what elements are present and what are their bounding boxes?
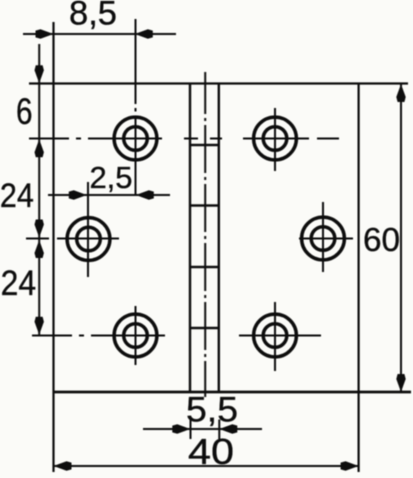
centerline row3 segment b through hole	[91, 335, 165, 337]
hole mid-right inner	[311, 227, 335, 251]
dim line 2,5	[48, 194, 170, 196]
arrow 2,5 left	[69, 190, 87, 199]
hole top-left outer	[114, 117, 157, 160]
centerline col1 segment a	[135, 19, 137, 104]
arrow 2,5 right	[136, 190, 154, 199]
knuckle joint 3	[190, 266, 219, 268]
arrow up at row1	[35, 139, 44, 157]
knuckle joint 2	[190, 204, 219, 206]
dim line 8,5	[23, 33, 176, 35]
arrow 24 down at row2	[35, 220, 44, 238]
dim line 40	[54, 465, 359, 467]
hole top-right inner	[263, 127, 287, 151]
centerline row3 dot	[79, 335, 84, 337]
centerline col1 bottom hole	[135, 306, 137, 365]
extension tick 5,5 right	[218, 420, 220, 440]
hinge leaf bottom edge with extension	[54, 391, 412, 394]
svg-text:24: 24	[1, 264, 37, 303]
centerline row1 dot	[76, 138, 81, 140]
centerline row1 segment c through right hole	[243, 138, 309, 140]
svg-text:6: 6	[16, 91, 33, 132]
svg-text:24: 24	[0, 177, 34, 215]
svg-text:5,5: 5,5	[186, 391, 238, 430]
centerline row1 end dash	[317, 138, 339, 140]
arrow 40 right	[341, 461, 359, 470]
arrow 8,5 right	[135, 29, 153, 38]
hole bottom-right inner	[263, 324, 287, 348]
hole top-right outer	[254, 117, 297, 160]
centerline row1 dash on knuckle left	[184, 138, 198, 140]
svg-text:40: 40	[188, 431, 234, 472]
svg-text:60: 60	[363, 222, 400, 259]
hinge leaf left edge + extension lines	[52, 22, 54, 472]
extension tick 5,5 left	[190, 420, 192, 440]
centerline row2 right segment through hole	[299, 238, 353, 240]
hole top-left inner	[124, 127, 148, 151]
dim line left vertical	[38, 44, 40, 336]
arrow 40 left	[54, 461, 72, 470]
centerline row1 segment b through hole	[88, 138, 162, 140]
knuckle left line	[189, 84, 191, 393]
arrow 60 top (up)	[396, 84, 405, 102]
knuckle joint 4	[190, 327, 219, 329]
svg-text:8,5: 8,5	[69, 0, 117, 33]
arrow 6 top (down)	[35, 65, 44, 83]
knuckle right line	[218, 84, 220, 393]
centerline col1 dot	[135, 108, 137, 112]
centerline col1 segment b through hole	[135, 116, 137, 197]
hole mid-left inner	[77, 227, 101, 251]
centerline row3 segment a	[32, 335, 72, 337]
arrow 60 bottom (down)	[396, 374, 405, 392]
dim line 60	[400, 84, 402, 392]
arrow 5,5 right	[219, 424, 237, 433]
hole mid-right outer	[302, 217, 345, 260]
dim line 5,5	[143, 428, 262, 430]
pin centerline dash-dot	[204, 72, 206, 397]
centerline col top-right hole	[274, 108, 276, 171]
centerline col mid-right hole	[322, 202, 324, 272]
hole bottom-right outer	[254, 314, 297, 357]
hinge leaf right edge + extension line	[358, 84, 360, 473]
hole bottom-left outer	[114, 314, 157, 357]
arrow 5,5 left	[172, 424, 190, 433]
arrow 8,5 left	[36, 29, 54, 38]
arrow 24 down at row3	[35, 317, 44, 335]
hole bottom-left inner	[124, 324, 148, 348]
centerline row3 right segment through hole	[239, 335, 321, 337]
hole mid-left outer	[67, 218, 110, 261]
centerline row2 left segment through hole	[57, 238, 119, 240]
centerline row2 left dash	[26, 238, 49, 240]
centerline row1 dash on knuckle right	[210, 138, 222, 140]
centerline col bottom-right hole	[274, 302, 276, 371]
arrow 24 up at row2	[35, 240, 44, 258]
centerline row1 segment a	[29, 138, 69, 140]
hinge leaf top edge with extensions	[29, 82, 408, 84]
knuckle joint 1	[190, 144, 219, 146]
svg-text:2,5: 2,5	[89, 160, 132, 195]
centerline col2 mid-left	[87, 182, 89, 277]
